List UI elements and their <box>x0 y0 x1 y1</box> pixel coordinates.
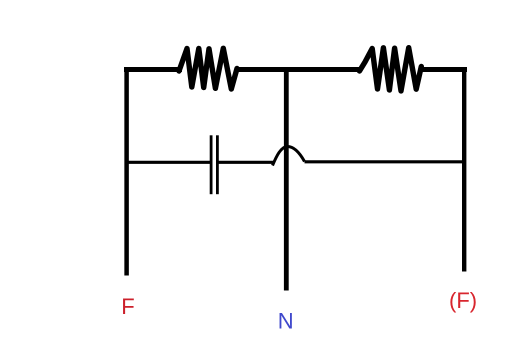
svg-text:N: N <box>278 308 294 333</box>
svg-text:F: F <box>121 294 134 319</box>
svg-text:(F): (F) <box>449 288 477 313</box>
